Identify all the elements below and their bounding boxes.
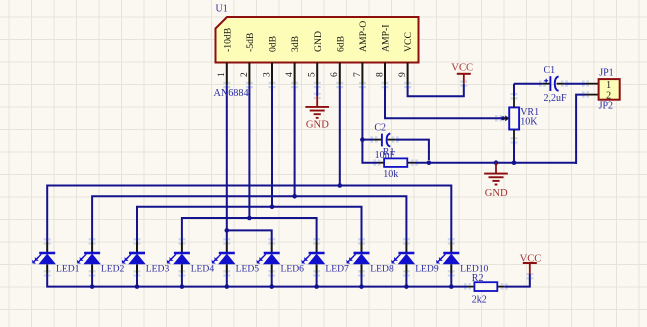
svg-text:VCC: VCC (520, 254, 542, 265)
svg-text:LED6: LED6 (281, 264, 305, 275)
svg-text:LED9: LED9 (415, 264, 439, 275)
svg-text:JP2: JP2 (599, 101, 613, 112)
svg-text:10nF: 10nF (375, 150, 396, 161)
svg-text:6dB: 6dB (335, 36, 346, 52)
svg-text:VCC: VCC (451, 63, 473, 74)
svg-text:4: 4 (285, 72, 295, 77)
svg-text:LED10: LED10 (460, 264, 488, 275)
svg-text:10K: 10K (520, 117, 538, 128)
svg-text:LED5: LED5 (236, 264, 260, 275)
svg-text:5: 5 (308, 72, 318, 77)
svg-text:AMP-O: AMP-O (358, 21, 369, 52)
svg-text:-5dB: -5dB (245, 33, 256, 52)
svg-text:AMP-I: AMP-I (381, 25, 392, 52)
svg-text:LED8: LED8 (370, 264, 394, 275)
svg-text:U1: U1 (216, 4, 228, 15)
svg-text:1: 1 (217, 72, 227, 77)
svg-text:VCC: VCC (403, 32, 414, 52)
svg-text:7: 7 (353, 72, 363, 77)
svg-text:2,2uF: 2,2uF (544, 93, 568, 104)
svg-text:LED2: LED2 (101, 264, 125, 275)
svg-text:3dB: 3dB (290, 36, 301, 52)
svg-text:3: 3 (262, 72, 272, 77)
svg-text:2: 2 (240, 72, 250, 77)
svg-text:9: 9 (398, 72, 408, 77)
svg-text:LED7: LED7 (325, 264, 349, 275)
svg-text:8: 8 (375, 72, 385, 77)
svg-text:0dB: 0dB (268, 36, 279, 52)
svg-text:AN6884: AN6884 (214, 88, 249, 99)
svg-text:6: 6 (330, 72, 340, 77)
svg-text:R2: R2 (472, 273, 484, 284)
svg-text:GND: GND (306, 120, 329, 131)
svg-text:GND: GND (313, 31, 324, 52)
svg-text:C1: C1 (544, 65, 556, 76)
svg-text:2k2: 2k2 (472, 295, 487, 306)
svg-text:-10dB: -10dB (222, 28, 233, 52)
svg-text:JP1: JP1 (599, 67, 613, 78)
svg-text:LED1: LED1 (56, 264, 80, 275)
svg-text:GND: GND (485, 188, 508, 199)
svg-text:LED3: LED3 (146, 264, 170, 275)
svg-text:LED4: LED4 (191, 264, 215, 275)
svg-text:10k: 10k (383, 169, 398, 180)
svg-text:C2: C2 (374, 122, 386, 133)
